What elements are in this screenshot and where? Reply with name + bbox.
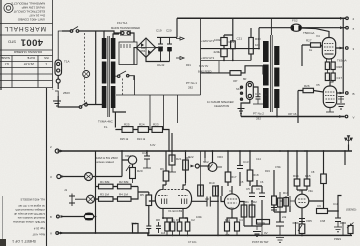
svg-text:POST PA TAP: POST PA TAP — [252, 240, 269, 244]
svg-text:R29: R29 — [229, 40, 235, 44]
svg-text:V3A: V3A — [308, 189, 313, 193]
svg-text:C5: C5 — [246, 187, 250, 191]
svg-text:282: 282 — [256, 117, 261, 121]
svg-text:R26: R26 — [304, 84, 310, 88]
svg-text:PT No.2: PT No.2 — [253, 112, 264, 116]
svg-text:R15: R15 — [305, 174, 311, 178]
svg-text:STD: STD — [8, 40, 16, 45]
svg-text:1k: 1k — [309, 48, 313, 52]
svg-text:R11: R11 — [225, 218, 231, 222]
svg-text:DATE: DATE — [27, 56, 35, 60]
svg-text:V4: V4 — [316, 34, 320, 38]
svg-text:R4 1M: R4 1M — [119, 193, 128, 197]
svg-text:SK2: SK2 — [203, 160, 209, 164]
svg-text:C20: C20 — [166, 29, 172, 33]
svg-text:C18: C18 — [255, 92, 261, 96]
svg-text:FS2: FS2 — [292, 19, 298, 23]
svg-text:470k: 470k — [275, 165, 281, 169]
svg-text:6.3V: 6.3V — [150, 143, 156, 147]
svg-text:SK1: SK1 — [236, 87, 241, 91]
svg-text:0.68: 0.68 — [320, 219, 326, 223]
svg-text:Mdn: 4.87: Mdn: 4.87 — [32, 233, 45, 237]
svg-text:22k: 22k — [282, 215, 287, 219]
svg-text:4001: 4001 — [20, 36, 43, 47]
svg-text:C17: C17 — [337, 76, 343, 80]
svg-text:VR4: VR4 — [125, 154, 131, 158]
svg-text:C7 10n: C7 10n — [188, 240, 197, 244]
svg-text:C3: C3 — [205, 197, 209, 201]
svg-text:V: V — [353, 116, 355, 120]
svg-text:R18: R18 — [253, 173, 259, 177]
svg-text:B: B — [353, 92, 355, 96]
svg-text:C10: C10 — [333, 202, 339, 206]
svg-text:R1 68k: R1 68k — [100, 180, 110, 184]
svg-text:V2: V2 — [229, 189, 233, 193]
svg-text:CELESTION: CELESTION — [214, 104, 229, 108]
svg-text:C14: C14 — [256, 157, 261, 161]
svg-text:OP: OP — [233, 79, 237, 83]
svg-text:R23: R23 — [153, 123, 159, 127]
svg-text:FS1 T1A: FS1 T1A — [117, 21, 127, 25]
svg-text:VR3: VR3 — [217, 155, 223, 159]
svg-text:C4: C4 — [239, 218, 243, 222]
svg-text:+320V HT1: +320V HT1 — [201, 39, 215, 43]
svg-text:VR1: VR1 — [243, 200, 249, 204]
svg-text:R24: R24 — [139, 123, 145, 127]
svg-text:SHEET 1 OF 1: SHEET 1 OF 1 — [12, 239, 36, 243]
svg-text:C6: C6 — [260, 180, 264, 184]
svg-text:PRES: PRES — [334, 237, 341, 241]
svg-text:C9: C9 — [317, 204, 321, 208]
svg-text:MARSHALL: MARSHALL — [4, 25, 46, 32]
svg-text:29-5-87: 29-5-87 — [23, 62, 34, 66]
svg-text:C8: C8 — [311, 170, 315, 174]
svg-text:MAINS TRANSFORMER: MAINS TRANSFORMER — [111, 26, 140, 30]
svg-text:GJ: GJ — [5, 62, 9, 66]
svg-text:R28: R28 — [337, 65, 343, 69]
svg-text:VR2: VR2 — [251, 200, 257, 204]
svg-text:ISS: ISS — [44, 56, 49, 60]
svg-text:V: V — [50, 232, 52, 236]
svg-text:W04: W04 — [140, 49, 146, 53]
svg-text:C19: C19 — [156, 29, 162, 33]
svg-text:1C 6x8x3B SPEAKER: 1C 6x8x3B SPEAKER — [207, 100, 234, 104]
svg-text:R5: R5 — [140, 193, 144, 197]
svg-text:R17: R17 — [231, 175, 237, 179]
svg-text:32+32: 32+32 — [157, 63, 165, 67]
svg-text:R13: R13 — [283, 191, 289, 195]
svg-text:C6: C6 — [256, 187, 260, 191]
svg-text:V5: V5 — [316, 83, 320, 87]
svg-text:no signal w.r.t. 0V rail: no signal w.r.t. 0V rail — [18, 204, 45, 208]
svg-text:10k: 10k — [255, 43, 260, 47]
svg-text:TXMA-46C: TXMA-46C — [98, 120, 114, 124]
svg-text:V1 ECC83: V1 ECC83 — [168, 209, 183, 213]
svg-text:220k: 220k — [214, 50, 221, 54]
svg-text:C16: C16 — [131, 222, 137, 226]
svg-text:DRAWING NUMBER: DRAWING NUMBER — [13, 50, 42, 54]
svg-text:T500mA: T500mA — [303, 31, 314, 35]
svg-text:R25: R25 — [124, 123, 130, 127]
svg-text:OP 16: OP 16 — [288, 112, 297, 116]
svg-text:R19: R19 — [265, 169, 270, 173]
svg-text:R30: R30 — [255, 37, 261, 41]
svg-text:C21: C21 — [237, 37, 243, 41]
svg-text:V2A: V2A — [229, 206, 234, 210]
svg-text:C2: C2 — [191, 218, 195, 222]
svg-text:T63mA: T63mA — [337, 59, 347, 63]
svg-text:BIAS FEED: BIAS FEED — [198, 70, 212, 74]
svg-text:0V: 0V — [264, 231, 268, 235]
svg-text:R3 1M: R3 1M — [100, 193, 109, 197]
svg-text:App 16.4: App 16.4 — [33, 227, 45, 231]
svg-text:VR5: VR5 — [306, 219, 312, 223]
svg-text:+315V HT2: +315V HT2 — [201, 56, 215, 60]
svg-text:R7: R7 — [186, 156, 190, 160]
svg-text:R20: R20 — [137, 169, 143, 173]
svg-text:R24 1k: R24 1k — [137, 137, 146, 141]
svg-text:R9: R9 — [176, 218, 180, 222]
svg-text:MARSHALL PRODUCTS: MARSHALL PRODUCTS — [11, 1, 45, 5]
svg-text:NAME: NAME — [1, 56, 10, 60]
svg-text:R10: R10 — [209, 181, 215, 185]
svg-text:V3: V3 — [299, 189, 303, 193]
svg-text:R31: R31 — [186, 63, 191, 67]
svg-text:TONE: TONE — [257, 221, 265, 225]
svg-text:R6: R6 — [160, 167, 164, 171]
svg-text:100k: 100k — [214, 38, 221, 42]
svg-text:(SEND): (SEND) — [346, 208, 356, 212]
svg-text:R25 1k: R25 1k — [120, 137, 129, 141]
svg-text:R8: R8 — [156, 218, 160, 222]
svg-text:6.3V 0V: 6.3V 0V — [199, 64, 208, 68]
svg-text:T1A: T1A — [64, 60, 70, 64]
svg-text:R2 68k: R2 68k — [119, 180, 129, 184]
svg-text:R14: R14 — [293, 174, 299, 178]
svg-text:C13: C13 — [243, 160, 249, 164]
svg-text:R27: R27 — [306, 39, 312, 43]
svg-text:ALL 4001 MODELS: ALL 4001 MODELS — [20, 198, 45, 202]
svg-text:4n7: 4n7 — [225, 233, 230, 237]
svg-text:250V: 250V — [63, 91, 70, 95]
svg-text:PT No.1: PT No.1 — [186, 81, 197, 85]
svg-text:8R: 8R — [243, 77, 246, 81]
svg-text:unless stated: unless stated — [96, 160, 114, 164]
svg-text:J1: J1 — [64, 188, 68, 192]
svg-text:C1: C1 — [171, 218, 175, 222]
svg-text:1k5: 1k5 — [161, 231, 166, 235]
svg-text:100k: 100k — [196, 215, 202, 219]
svg-text:282: 282 — [188, 86, 193, 90]
svg-text:R21: R21 — [176, 157, 182, 161]
svg-text:FL: FL — [104, 125, 108, 129]
svg-text:C5: C5 — [240, 180, 244, 184]
